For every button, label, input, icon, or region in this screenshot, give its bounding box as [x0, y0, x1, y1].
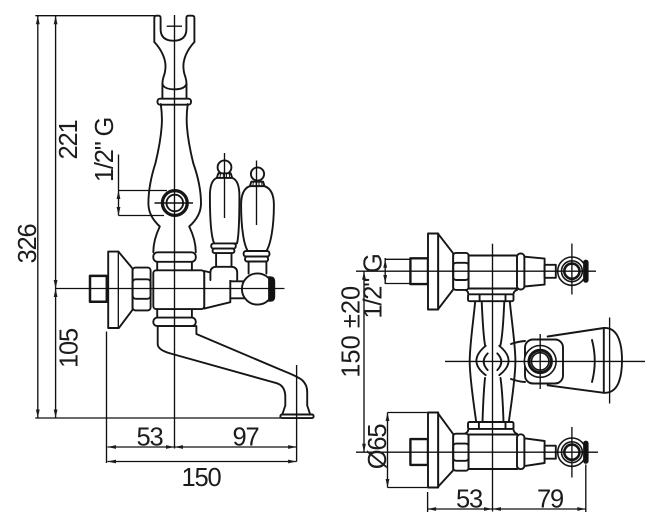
- right handle ball: [251, 167, 264, 180]
- half-inch bracket right view: [385, 258, 409, 284]
- escutcheon plate (left view): [108, 252, 118, 328]
- svg-text:53: 53: [137, 424, 164, 452]
- arrowheads left: [108, 445, 117, 449]
- left handle ball: [218, 160, 232, 174]
- hub crosshair: [539, 334, 541, 389]
- bell rim chord: [603, 328, 605, 393]
- top circle crosshair: [571, 244, 573, 295]
- bottom wall stub: [410, 439, 428, 465]
- body top neck: [157, 262, 192, 271]
- flange fillets: [466, 290, 518, 434]
- svg-text:150: 150: [182, 464, 222, 492]
- bottom arm tube: [469, 435, 518, 470]
- vase port circle inner: [167, 195, 184, 212]
- svg-text:326: 326: [14, 224, 42, 264]
- right column centerline: [492, 244, 494, 512]
- svg-text:53: 53: [456, 486, 483, 514]
- left handle neck: [217, 173, 232, 178]
- right handle stem: [249, 262, 267, 274]
- top wall stub: [410, 258, 428, 284]
- top escutcheon plate: [428, 234, 438, 310]
- body bottom lip: [153, 318, 196, 327]
- fork neck to vase top: [154, 42, 194, 99]
- top handle neck: [545, 265, 556, 278]
- bottom hex facets: [453, 444, 468, 461]
- diverter boss trapezoid: [204, 271, 230, 309]
- top arm collar: [517, 254, 524, 290]
- elbow sphere: [242, 273, 273, 304]
- top extension line: [35, 15, 155, 17]
- right arm centerline top: [356, 270, 596, 272]
- ball joint arcs: [476, 346, 508, 375]
- fork crosshair: [167, 25, 182, 27]
- top arm tube: [469, 256, 518, 289]
- spout: [158, 326, 311, 414]
- arrowheads up: [36, 16, 40, 25]
- top handle lever bar (bold): [584, 260, 588, 282]
- body top lip: [153, 252, 196, 261]
- escutcheon cone (left view): [119, 252, 133, 327]
- column bottom flange: [468, 422, 514, 429]
- spout center extension: [296, 365, 298, 462]
- outlet neck: [230, 281, 245, 298]
- right bottom ext lines: [428, 465, 586, 513]
- bell inner arc: [592, 340, 595, 382]
- wall extension line: [106, 332, 108, 464]
- left handle base rings: [211, 243, 236, 248]
- bottom arm collar: [517, 434, 524, 469]
- dim line 150pm20: [363, 271, 365, 452]
- svg-text:1/2" G: 1/2" G: [360, 254, 388, 318]
- body centerline: [56, 288, 285, 290]
- spout rim: [280, 415, 313, 419]
- svg-text:97: 97: [233, 424, 259, 452]
- left handle stem base: [210, 267, 237, 280]
- top hex nut: [453, 253, 468, 290]
- bottom escutcheon plate: [428, 413, 438, 488]
- right mid centerline: [445, 360, 645, 362]
- bottom handle neck: [545, 446, 556, 459]
- diverter bell: [548, 328, 622, 393]
- svg-text:79: 79: [537, 486, 563, 514]
- svg-text:105: 105: [56, 328, 84, 368]
- bottom handle lever bar (bold): [584, 441, 588, 463]
- left handle stem: [216, 253, 231, 266]
- main body block: [153, 270, 204, 309]
- arrowheads down: [36, 410, 40, 419]
- half-inch bracket left view: [119, 155, 168, 216]
- right handle neck: [250, 182, 265, 187]
- column top flange: [468, 294, 514, 301]
- diverter hub: [525, 340, 563, 384]
- arrowheads right: [166, 445, 175, 449]
- top hex facets: [453, 263, 468, 280]
- column inner contour: [482, 301, 505, 422]
- svg-text:1/2" G: 1/2" G: [91, 118, 119, 182]
- bottom escutcheon cone: [438, 414, 453, 487]
- right arm centerline bottom: [356, 451, 598, 453]
- bottom extension line: [35, 417, 281, 419]
- vase column: [148, 104, 201, 252]
- column outline: [470, 301, 516, 422]
- bottom handle end circles: [558, 438, 586, 466]
- vase port circle outer (bold): [162, 191, 187, 216]
- bell crosshair: [609, 318, 611, 404]
- left column centerline: [174, 15, 176, 449]
- dim line 150: [108, 461, 297, 463]
- fork cup arc: [162, 84, 186, 90]
- bottom circle crosshair: [571, 427, 573, 478]
- left handle centerline: [224, 153, 226, 218]
- fork collar: [158, 99, 192, 105]
- dia65 dim lines: [388, 413, 428, 488]
- dim line 326: [37, 16, 39, 418]
- bottom hex nut: [453, 434, 468, 471]
- diverter hub circles: [524, 346, 556, 378]
- port crosshair: [155, 202, 194, 204]
- hex nut (left view): [133, 268, 151, 311]
- svg-text:Ø65: Ø65: [364, 424, 392, 470]
- dim line 221-105: [55, 16, 57, 418]
- dim line 53-79 right: [428, 508, 586, 510]
- shower-cradle fork: [154, 16, 194, 42]
- dim line 53-97: [108, 446, 297, 448]
- hex facet lines: [133, 279, 151, 299]
- right handle base rings: [244, 251, 270, 257]
- right handle body: [241, 186, 274, 251]
- top handle cone: [524, 257, 544, 287]
- hub fillets: [511, 341, 525, 382]
- top escutcheon cone: [438, 234, 453, 309]
- hose cap (bold): [269, 277, 275, 301]
- bottom handle cone: [524, 438, 544, 466]
- top handle end circles: [558, 257, 586, 285]
- left handle body: [210, 178, 240, 244]
- body bottom neck: [157, 309, 192, 318]
- svg-text:221: 221: [55, 121, 83, 160]
- wall stub (left view): [90, 276, 107, 302]
- right handle centerline: [256, 161, 258, 226]
